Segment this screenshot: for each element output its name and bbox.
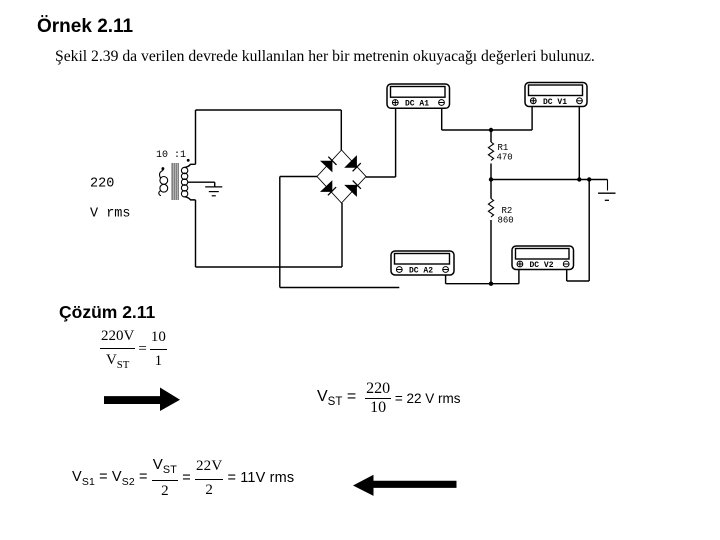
wire bridge top drop: [340, 110, 342, 150]
transformer TX1 core: [172, 163, 178, 200]
source label 220 V rms: [90, 177, 131, 222]
svg-text:470: 470: [497, 153, 513, 163]
equation 2: [317, 380, 460, 417]
voltmeter DC V2: [512, 246, 574, 270]
wire bridge bottom rise: [341, 203, 343, 267]
problem statement: [55, 48, 595, 66]
equation 3: [72, 456, 294, 500]
wire V1 right stub down: [578, 107, 580, 181]
diode D3 bottom-left: [320, 180, 336, 195]
node junction R2 bottom: [489, 282, 493, 286]
svg-text:10 :1: 10 :1: [156, 150, 186, 161]
resistor R2: [488, 180, 513, 284]
wire V1 left stub: [531, 107, 533, 131]
transformer TX1 primary winding: [159, 168, 168, 196]
wire bridge left: [280, 176, 317, 178]
svg-text:V rms: V rms: [90, 207, 131, 222]
wire center tap: [188, 181, 215, 183]
wire secondary top lead: [185, 164, 196, 167]
ground right: [598, 180, 616, 201]
wire V2 right vertical: [588, 180, 590, 282]
wire A2 to V2 rail: [446, 283, 519, 285]
ground center tap: [205, 182, 222, 196]
svg-text:DC A1: DC A1: [405, 100, 429, 109]
svg-text:220: 220: [90, 177, 114, 192]
node junction R1 top: [489, 128, 493, 132]
wire up to ammeter A1: [395, 108, 397, 177]
diode D4 bottom-right: [344, 181, 361, 197]
bridge diamond edges: [317, 150, 366, 203]
wire bridge right: [366, 176, 396, 178]
wire left vertical down: [279, 177, 281, 288]
svg-text:R1: R1: [498, 143, 509, 153]
wire secondary bottom vertical: [195, 200, 197, 267]
node junction R1 bottom: [489, 177, 493, 181]
voltmeter DC V1: [525, 83, 587, 107]
wire A1 to V1 rail: [442, 129, 532, 131]
ammeter DC A1: [387, 84, 450, 109]
arrow right solution 1: [104, 388, 180, 412]
wire V2 left stub: [518, 270, 520, 284]
svg-text:R2: R2: [502, 206, 513, 216]
resistor R1: [488, 131, 512, 179]
wire secondary top vertical: [195, 110, 197, 164]
arrow left solution 2: [353, 475, 457, 496]
wire A1 right stub: [441, 108, 443, 130]
svg-text:DC V2: DC V2: [530, 261, 554, 270]
wire bottom rail: [196, 266, 343, 268]
wire mid rail: [491, 179, 608, 181]
title: [37, 16, 133, 38]
svg-text:860: 860: [498, 216, 514, 226]
svg-text:DC V1: DC V1: [543, 98, 567, 107]
wire bottom horizontal to A2: [280, 287, 400, 289]
node junction V2 branch: [587, 177, 591, 181]
wire A2 right stub: [445, 275, 447, 284]
wire top rail: [196, 109, 342, 111]
diode D1 top-left: [320, 157, 337, 173]
transformer TX1 ratio label 10:1: [156, 150, 186, 161]
wire secondary bottom lead: [185, 197, 196, 200]
diode D2 top-right: [344, 155, 361, 171]
wire V2 right link: [567, 280, 590, 282]
ammeter DC A2: [391, 251, 454, 276]
svg-text:DC A2: DC A2: [409, 267, 433, 276]
wire V2 right stub: [566, 270, 568, 282]
equation 1: [100, 328, 167, 371]
node junction V1 drop: [577, 177, 581, 181]
transformer TX1 secondary winding: [181, 159, 189, 196]
solution heading: [59, 302, 155, 323]
